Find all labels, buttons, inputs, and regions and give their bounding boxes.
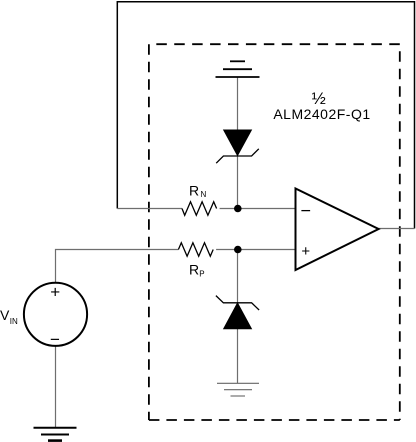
op-amp U1 — [296, 189, 379, 271]
wire: VIN to bottom ground — [55, 346, 57, 428]
svg-text:−: − — [300, 200, 311, 220]
resistor RP — [178, 243, 213, 257]
wire: D2 to inner ground — [237, 329, 239, 384]
bottom ground (VIN) — [34, 428, 77, 441]
resistor RN — [182, 202, 217, 216]
top ground — [216, 61, 260, 77]
svg-text:R: R — [189, 183, 199, 199]
node N junction dot — [234, 205, 242, 213]
svg-text:V: V — [0, 307, 10, 323]
zener diode D2 — [216, 296, 259, 329]
svg-text:+: + — [50, 283, 60, 302]
wire: node P to D2 — [237, 250, 239, 304]
wire: top ground to D1 — [237, 77, 239, 130]
dashed amplifier boundary box — [149, 44, 400, 420]
svg-text:+: + — [301, 243, 310, 260]
wire: RP to non-inverting input — [216, 249, 295, 251]
wire: RN to inverting input — [220, 208, 296, 210]
wire: op-amp output — [379, 228, 415, 230]
svg-text:−: − — [50, 330, 60, 349]
svg-text:IN: IN — [10, 317, 18, 326]
svg-text:R: R — [189, 262, 199, 278]
voltage source VIN — [24, 283, 87, 346]
svg-text:P: P — [199, 270, 204, 279]
svg-text:N: N — [201, 190, 207, 199]
zener diode D1 (cathode up at node N side) — [216, 130, 259, 163]
wire: D1 to node N — [237, 156, 239, 209]
svg-text:ALM2402F-Q1: ALM2402F-Q1 — [273, 106, 370, 122]
node P junction dot — [234, 246, 242, 254]
wire: VIN to RP — [56, 250, 179, 283]
feedback loop wire (solid box) — [117, 2, 414, 229]
wire: box to RN — [117, 208, 182, 210]
inner ground below D2 — [217, 383, 259, 396]
